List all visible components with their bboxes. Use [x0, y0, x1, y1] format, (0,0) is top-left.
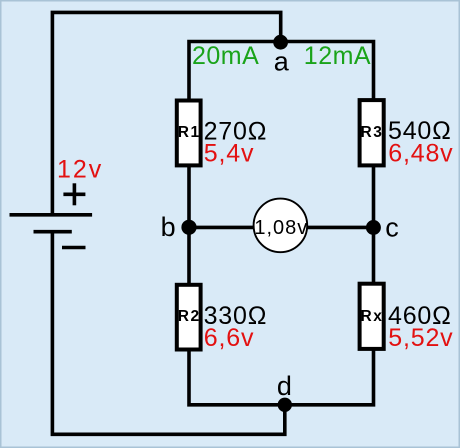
- svg-text:R1: R1: [178, 124, 201, 141]
- svg-text:1,08v: 1,08v: [254, 217, 308, 239]
- svg-text:5,52v: 5,52v: [388, 324, 453, 352]
- svg-text:20mA: 20mA: [192, 42, 259, 70]
- svg-text:a: a: [274, 47, 290, 77]
- svg-text:d: d: [277, 371, 292, 401]
- svg-text:R3: R3: [361, 124, 384, 141]
- svg-text:Rx: Rx: [361, 308, 384, 325]
- svg-text:5,4v: 5,4v: [204, 139, 254, 167]
- svg-text:b: b: [161, 212, 176, 242]
- svg-text:12mA: 12mA: [304, 42, 371, 70]
- svg-text:6,48v: 6,48v: [388, 140, 453, 168]
- svg-text:R2: R2: [178, 308, 201, 325]
- svg-text:6,6v: 6,6v: [204, 324, 254, 352]
- svg-text:c: c: [385, 213, 399, 243]
- svg-text:12v: 12v: [57, 156, 103, 184]
